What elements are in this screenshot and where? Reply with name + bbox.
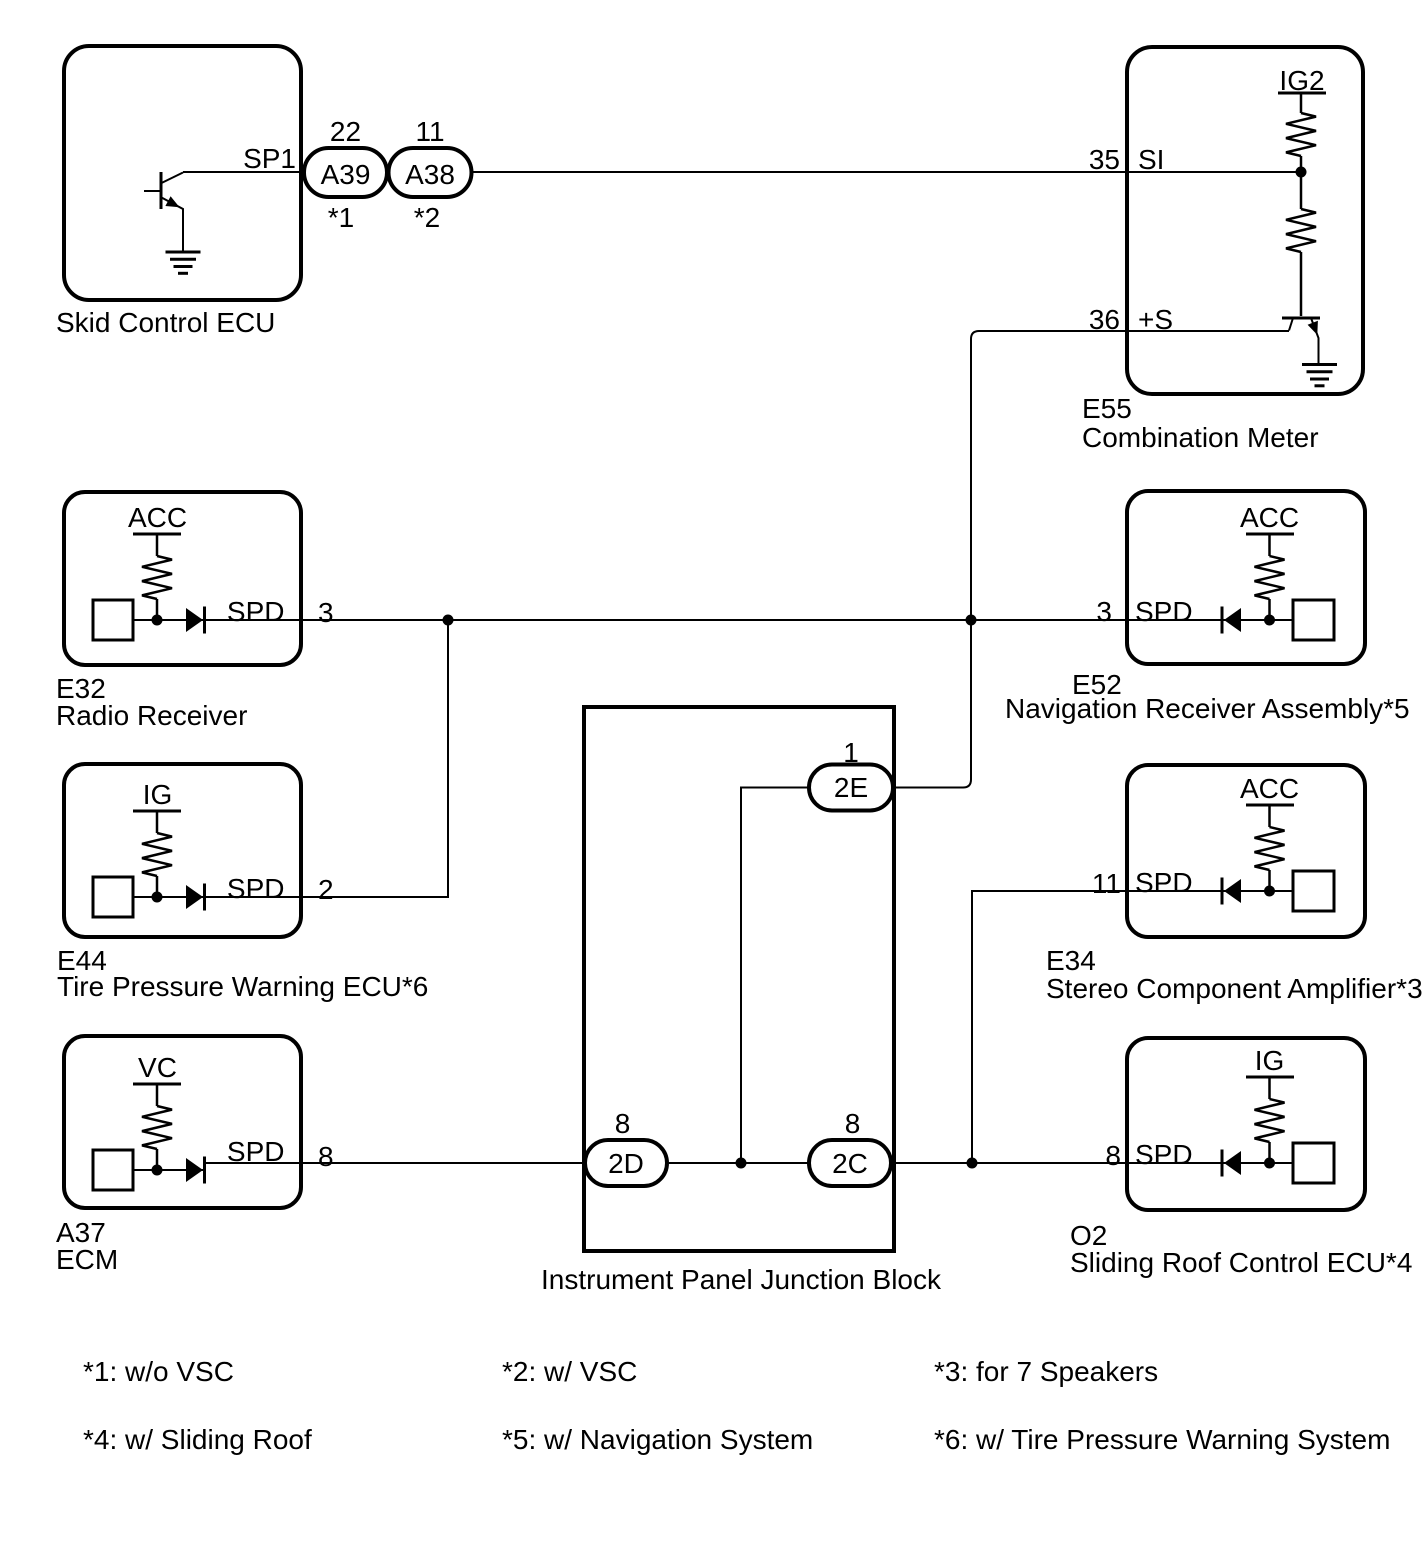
- svg-text:IG: IG: [143, 779, 173, 810]
- svg-text:SP1: SP1: [243, 143, 296, 174]
- svg-text:+S: +S: [1138, 304, 1173, 335]
- resistor R2 (SI to transistor): [1286, 172, 1316, 316]
- diode: [186, 885, 203, 909]
- resistor (ACC pull-up): [156, 534, 159, 556]
- svg-text:2C: 2C: [832, 1148, 868, 1179]
- internal circuit block: [1293, 1143, 1334, 1183]
- svg-text:*3: for 7 Speakers: *3: for 7 Speakers: [934, 1356, 1158, 1387]
- svg-text:*2: *2: [414, 202, 440, 233]
- wire +S net: E55 pin36 left and down to 2E: [893, 331, 1289, 788]
- svg-text:VC: VC: [138, 1052, 177, 1083]
- svg-text:Combination Meter: Combination Meter: [1082, 422, 1319, 453]
- internal circuit block: [93, 1150, 133, 1190]
- svg-text:IG2: IG2: [1279, 65, 1324, 96]
- svg-text:SPD: SPD: [1135, 867, 1193, 898]
- junction node: [152, 615, 163, 626]
- radio receiver E32 box: [64, 492, 301, 665]
- svg-text:SPD: SPD: [1135, 1139, 1193, 1170]
- junction node: [1264, 1158, 1275, 1169]
- svg-text:ECM: ECM: [56, 1244, 118, 1275]
- svg-text:A39: A39: [321, 159, 371, 190]
- wire E34 pin11 down to O2 line: [972, 891, 1222, 1163]
- wire (internal): [133, 896, 205, 898]
- internal circuit block: [93, 877, 133, 917]
- node E34/O2 junction: [967, 1158, 978, 1169]
- internal circuit block: [1293, 871, 1334, 911]
- svg-text:*1: *1: [328, 202, 354, 233]
- svg-text:A38: A38: [405, 159, 455, 190]
- wire (internal): [1222, 619, 1293, 621]
- svg-text:3: 3: [1096, 596, 1112, 627]
- svg-text:E34: E34: [1046, 945, 1096, 976]
- resistor (ACC pull-up): [1268, 534, 1271, 556]
- svg-text:1: 1: [843, 737, 859, 768]
- svg-text:11: 11: [415, 116, 444, 147]
- diode: [1224, 879, 1241, 903]
- power source IG2: [1278, 65, 1326, 96]
- svg-text:8: 8: [845, 1108, 861, 1139]
- svg-text:IG: IG: [1255, 1045, 1285, 1076]
- svg-text:Stereo Component Amplifier*3: Stereo Component Amplifier*3: [1046, 973, 1423, 1004]
- svg-text:Sliding Roof Control ECU*4: Sliding Roof Control ECU*4: [1070, 1247, 1412, 1278]
- svg-text:SPD: SPD: [1135, 596, 1193, 627]
- svg-text:11: 11: [1092, 868, 1121, 899]
- svg-text:2: 2: [318, 874, 334, 905]
- svg-text:ACC: ACC: [1240, 502, 1299, 533]
- resistor (ACC pull-up): [1268, 805, 1271, 827]
- svg-text:ACC: ACC: [128, 502, 187, 533]
- svg-text:*2: w/ VSC: *2: w/ VSC: [502, 1356, 637, 1387]
- combination meter E55 box: [1127, 47, 1363, 394]
- wire (internal): [1222, 1162, 1293, 1164]
- node SPD/E44 junction: [443, 615, 454, 626]
- junction node: [152, 1165, 163, 1176]
- tire pressure warning ECU E44 box: [64, 764, 301, 937]
- svg-text:ACC: ACC: [1240, 773, 1299, 804]
- resistor (IG pull-up): [1268, 1077, 1271, 1099]
- wire (internal): [133, 619, 205, 621]
- diode: [186, 608, 203, 632]
- svg-text:E55: E55: [1082, 393, 1132, 424]
- internal circuit block: [93, 600, 133, 640]
- node SPD/+S junction: [966, 615, 977, 626]
- stereo component amplifier E34 box: [1127, 765, 1365, 937]
- svg-text:3: 3: [318, 597, 334, 628]
- connector A39 (pin 22, *1): [304, 116, 387, 233]
- wire (internal): [1222, 890, 1293, 892]
- sliding roof control ECU O2 box: [1127, 1038, 1365, 1210]
- svg-text:SPD: SPD: [227, 873, 285, 904]
- diode: [1224, 1151, 1241, 1175]
- junction node: [1264, 615, 1275, 626]
- ECM A37 box: [64, 1036, 301, 1208]
- resistor R1 (IG2 to SI): [1286, 93, 1316, 172]
- svg-text:*6: w/ Tire Pressure Warning S: *6: w/ Tire Pressure Warning System: [934, 1424, 1390, 1455]
- svg-text:35: 35: [1089, 144, 1120, 175]
- junction node: [1264, 886, 1275, 897]
- svg-text:Radio Receiver: Radio Receiver: [56, 700, 247, 731]
- junction node: [152, 892, 163, 903]
- connector 2C (pin 8): [809, 1108, 891, 1186]
- svg-text:Instrument Panel Junction Bloc: Instrument Panel Junction Block: [541, 1264, 942, 1295]
- diode: [1224, 608, 1241, 632]
- wire (internal): [133, 1169, 205, 1171]
- svg-text:*4: w/ Sliding Roof: *4: w/ Sliding Roof: [83, 1424, 312, 1455]
- connector A38 (pin 11, *2): [389, 116, 472, 233]
- svg-text:8: 8: [318, 1141, 334, 1172]
- wire junction block internal: 2E to 2D/2C line: [741, 788, 809, 1164]
- svg-text:Skid Control ECU: Skid Control ECU: [56, 307, 275, 338]
- svg-text:36: 36: [1089, 304, 1120, 335]
- skid control ECU box: [64, 46, 301, 300]
- svg-text:SI: SI: [1138, 144, 1164, 175]
- svg-text:22: 22: [330, 116, 361, 147]
- wire ECM SPD to junction block to O2 (y=1163): [205, 1162, 1294, 1164]
- svg-text:8: 8: [1105, 1140, 1121, 1171]
- transistor Q2 (combination meter): [1282, 318, 1320, 364]
- svg-text:Navigation Receiver Assembly*5: Navigation Receiver Assembly*5: [1005, 693, 1410, 724]
- node junction block internal: [736, 1158, 747, 1169]
- svg-text:*5: w/ Navigation System: *5: w/ Navigation System: [502, 1424, 813, 1455]
- ground (skid control ECU): [166, 252, 201, 273]
- resistor (IG pull-up): [156, 811, 159, 833]
- wire SP1 to SI (speed signal, y=172): [183, 171, 1301, 173]
- svg-text:2D: 2D: [608, 1148, 644, 1179]
- svg-text:*1: w/o VSC: *1: w/o VSC: [83, 1356, 234, 1387]
- connector 2E (pin 1): [809, 737, 893, 811]
- wire SPD net (E32/E52 line, y=620): [133, 619, 1293, 621]
- svg-text:Tire Pressure Warning ECU*6: Tire Pressure Warning ECU*6: [57, 971, 428, 1002]
- svg-text:8: 8: [615, 1108, 631, 1139]
- svg-text:SPD: SPD: [227, 1136, 285, 1167]
- instrument panel junction block box: [584, 707, 894, 1251]
- transistor Q1 (skid control ECU output): [144, 172, 183, 252]
- node SI junction: [1296, 167, 1307, 178]
- svg-text:2E: 2E: [834, 772, 868, 803]
- diode: [186, 1158, 203, 1182]
- navigation receiver E52 box: [1127, 491, 1365, 664]
- connector 2D (pin 8): [585, 1108, 667, 1186]
- wire E44 pin2 to SPD net: [205, 620, 449, 897]
- svg-text:SPD: SPD: [227, 596, 285, 627]
- ground (combination meter): [1302, 365, 1337, 386]
- resistor (VC pull-up): [156, 1084, 159, 1106]
- internal circuit block: [1293, 600, 1334, 640]
